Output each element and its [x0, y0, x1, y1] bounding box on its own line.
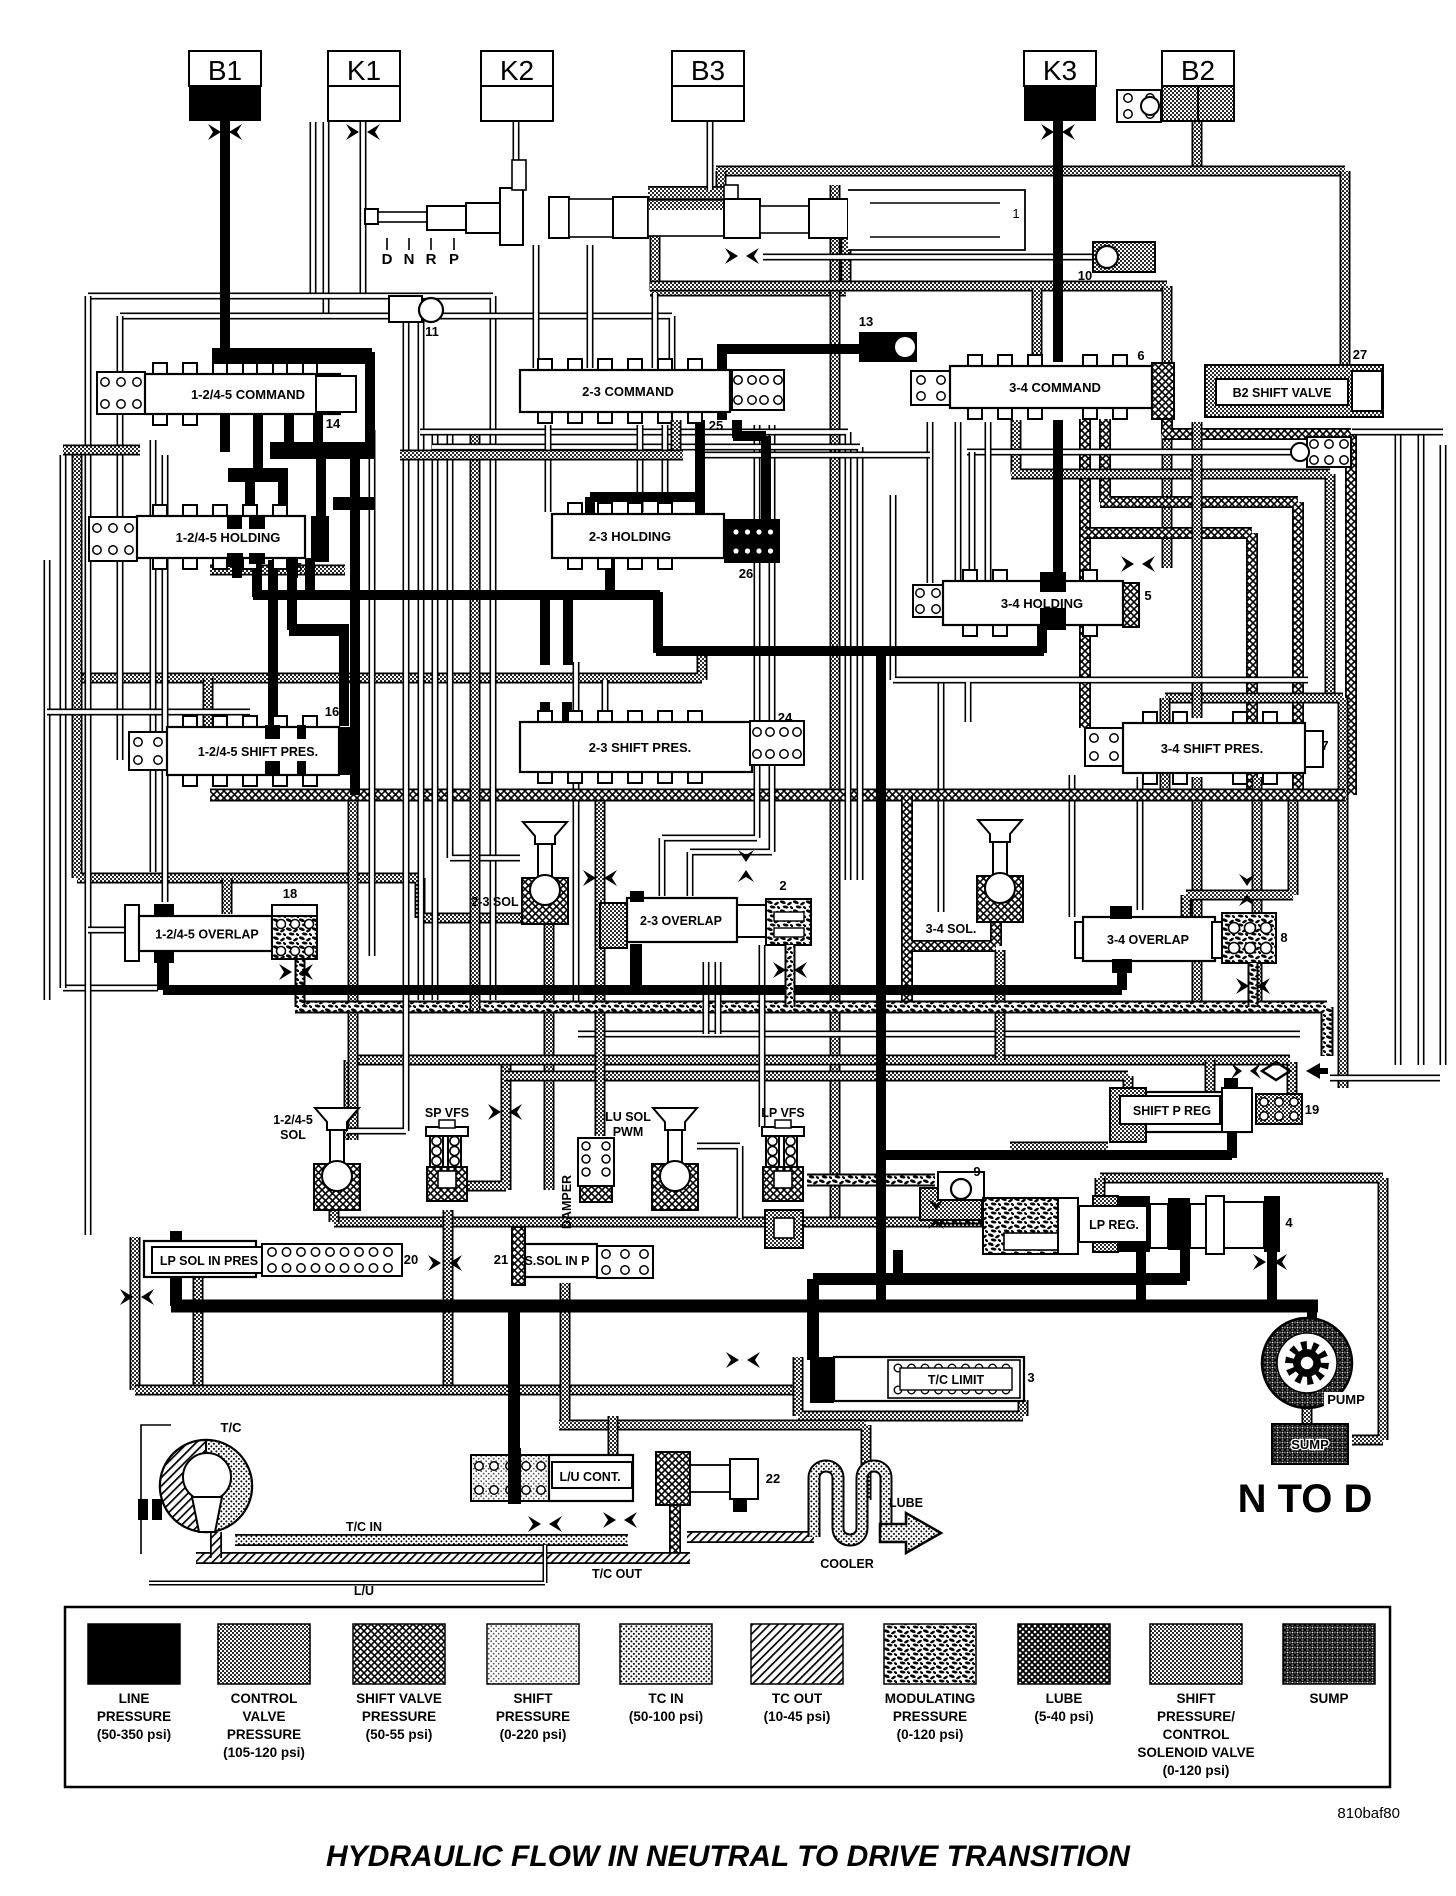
wire lp sol down — [170, 1268, 182, 1306]
svg-text:SHIFT VALVE: SHIFT VALVE — [356, 1691, 442, 1706]
svg-text:(0-220 psi): (0-220 psi) — [500, 1727, 567, 1742]
wire overlap2 drop — [630, 944, 642, 990]
wire bundle x372 — [369, 430, 376, 956]
wire bus drop b — [563, 598, 573, 665]
svg-text:19: 19 — [1305, 1102, 1319, 1117]
sump — [1272, 1424, 1348, 1464]
legend swatch LUBE — [1018, 1624, 1110, 1684]
wire gray drop to 3-4 command — [1032, 288, 1043, 368]
wire cmd1 black band y472 — [228, 468, 288, 482]
B2 side fitting — [1117, 90, 1161, 122]
svg-text:K3: K3 — [1043, 55, 1077, 86]
wire T/C OUT left riser — [210, 1532, 222, 1558]
wire B3 drop — [707, 121, 714, 190]
check valve item 9 — [920, 1188, 982, 1220]
restrictor below overlap3 — [1236, 978, 1249, 994]
svg-text:N: N — [404, 251, 415, 268]
wire item11 drop 2 — [418, 319, 425, 1000]
wire gray band y450 left — [63, 445, 140, 456]
svg-text:DAMPER: DAMPER — [560, 1175, 574, 1229]
wire to t/c limit — [807, 1279, 819, 1360]
wire 2-3 sp stub a — [540, 702, 550, 724]
svg-text:3-4 SHIFT PRES.: 3-4 SHIFT PRES. — [1161, 741, 1264, 756]
legend swatch TC IN — [620, 1624, 712, 1684]
svg-text:27: 27 — [1353, 347, 1367, 362]
valve 1-2/4-5 OVERLAP (18) — [125, 905, 139, 961]
svg-text:16: 16 — [325, 704, 339, 719]
svg-text:2-3 COMMAND: 2-3 COMMAND — [582, 384, 674, 399]
D N R P gate labels — [387, 238, 454, 250]
restrictor 20 — [428, 1255, 441, 1271]
svg-text:LP REG.: LP REG. — [1089, 1218, 1139, 1232]
wire left loop x77 to 2-3 sol — [77, 455, 525, 918]
wire 2-3 link c — [662, 425, 669, 512]
check ball item 11 — [389, 296, 422, 322]
wire left channel x120 — [117, 316, 124, 760]
flow arrows item 9 — [928, 1199, 944, 1210]
valve 2-3 SHIFT PRES (24) — [538, 711, 552, 724]
svg-text:HYDRAULIC FLOW IN NEUTRAL TO D: HYDRAULIC FLOW IN NEUTRAL TO DRIVE TRANS… — [326, 1840, 1131, 1873]
wire gray drop x600 to damper — [595, 795, 606, 1136]
wire manual to 2-3 cmd b — [587, 245, 594, 368]
wire channel into overlap3 top — [1137, 777, 1144, 910]
wire holding1 stub a — [232, 558, 242, 578]
wire lp reg left drop — [893, 1250, 903, 1279]
restrictor under manual valve — [725, 248, 738, 264]
wire vertical x448 — [443, 1210, 454, 1390]
wire shift valve bus y795 — [210, 789, 1345, 802]
restrictor near sp vfs — [488, 1104, 501, 1120]
svg-text:D: D — [382, 251, 393, 268]
wire T/C IN line — [235, 1534, 628, 1546]
legend swatch SHIFT VALVE — [353, 1624, 445, 1684]
svg-text:L/U CONT.: L/U CONT. — [559, 1470, 620, 1484]
wire y1060 left end down — [344, 1060, 355, 1140]
wire channel into bus start — [63, 985, 158, 992]
wire black drop x292 — [287, 560, 297, 630]
wire gray stub into overlap1 — [222, 878, 233, 914]
wire right channel b — [1418, 432, 1425, 1065]
wire manual to 2-3 cmd a — [533, 245, 540, 368]
wire into overlap1 — [88, 927, 140, 934]
valve LP SOL IN PRES (20) — [144, 1241, 256, 1277]
wire sp vfs feed — [468, 1062, 506, 1190]
wire to 3-4 holding — [1037, 622, 1047, 653]
svg-text:6: 6 — [1137, 348, 1144, 363]
fitting below B2 shift valve — [1307, 437, 1351, 467]
wire 3-4 sol drop — [995, 950, 1006, 1060]
wire loop bottom y1390 — [135, 1385, 798, 1396]
svg-text:2: 2 — [779, 878, 786, 893]
cooler coil — [814, 1466, 886, 1540]
wire rail left end — [329, 1205, 340, 1222]
restrictor left of t/c limit — [726, 1352, 739, 1368]
wire blob stub below overlap2 — [785, 945, 796, 1007]
svg-text:B1: B1 — [208, 55, 242, 86]
valve S.SOL IN P (21) — [512, 1227, 525, 1285]
svg-text:1-2/4-5 HOLDING: 1-2/4-5 HOLDING — [176, 530, 281, 545]
wire channel x972 down — [969, 452, 976, 583]
valve B2 SHIFT VALVE (27) — [1205, 365, 1383, 417]
svg-text:SOLENOID VALVE: SOLENOID VALVE — [1137, 1745, 1254, 1760]
wire left channel x153 — [150, 440, 157, 872]
lube arrow — [880, 1513, 941, 1553]
svg-text:3-4 COMMAND: 3-4 COMMAND — [1009, 380, 1101, 395]
valve 2-3 HOLDING (26) — [568, 503, 582, 516]
wire right top connector — [1352, 429, 1443, 436]
wire 2-3 link a — [545, 425, 552, 512]
wire item9 to lp reg blob — [940, 1196, 985, 1218]
wire bundle x435 — [432, 432, 439, 1000]
wire right vertical x1167 — [1162, 286, 1173, 568]
flow arrows above overlap3 — [1239, 874, 1255, 886]
wire left tall channel x88 — [85, 296, 92, 1235]
svg-text:T/C LIMIT: T/C LIMIT — [928, 1373, 985, 1387]
legend swatch MODULATING — [884, 1624, 976, 1684]
svg-text:SHIFT P REG: SHIFT P REG — [1133, 1104, 1211, 1118]
valve 3-4 OVERLAP (8) — [1075, 922, 1087, 958]
wire gray stub y1147 into shift p reg — [1010, 1142, 1108, 1153]
wire loop left x135 — [130, 1237, 141, 1390]
flow arrows above overlap2 — [738, 850, 754, 862]
wire shift band y570 short — [210, 565, 345, 576]
wire bus connector x658 — [653, 592, 663, 653]
svg-text:TC IN: TC IN — [648, 1691, 683, 1706]
wire B1 side channel 2 — [323, 122, 330, 316]
restrictor on x600 — [583, 870, 596, 886]
wire drop to l/u cont — [508, 1306, 520, 1462]
svg-text:CONTROL: CONTROL — [231, 1691, 298, 1706]
item 26 black accumulator — [724, 519, 780, 563]
wire gray loop y698 — [1165, 698, 1343, 1088]
restrictor below l/u cont a — [528, 1516, 541, 1532]
valve 1-2/4-5 SHIFT PRES (16) — [129, 732, 167, 770]
manual valve (item 1) — [365, 209, 378, 224]
svg-text:T/C OUT: T/C OUT — [592, 1567, 642, 1581]
wire 2-3 link b — [637, 425, 644, 512]
wire 3-4 link a — [927, 422, 934, 583]
svg-text:K2: K2 — [500, 55, 534, 86]
wire bus y595 — [253, 590, 660, 600]
wire cross y455 — [700, 452, 930, 459]
wire bus y1279 — [813, 1273, 1187, 1285]
wire lp sol stub — [170, 1231, 182, 1244]
solenoid 2-3 SOL — [523, 822, 567, 844]
wire vertical x198 — [193, 1277, 204, 1390]
svg-text:LUBE: LUBE — [889, 1496, 923, 1510]
clutch K2 box — [481, 51, 553, 86]
wire 2-3 sp stub b — [562, 702, 572, 724]
wire 2-3 holding top link — [590, 497, 700, 524]
wire overlap2 stub down a — [703, 962, 710, 1034]
wire long channel y296 — [88, 296, 493, 1000]
wire blob stub below overlap1 — [295, 959, 306, 1007]
wire black drop x344 — [339, 632, 349, 726]
wire black drop x273 to shift pres — [268, 560, 278, 726]
wire T/C OUT line — [196, 1552, 690, 1564]
wire lp reg right drop — [1180, 1248, 1190, 1281]
wire into l/u cont top — [608, 1416, 619, 1458]
wire B1 line drop — [220, 121, 230, 352]
svg-text:LP SOL IN PRES: LP SOL IN PRES — [160, 1254, 258, 1268]
wire lp reg mid drop — [1136, 1248, 1146, 1306]
svg-text:B2: B2 — [1181, 55, 1215, 86]
svg-text:PRESSURE/: PRESSURE/ — [1157, 1709, 1235, 1724]
accumulator item 10 — [1093, 242, 1155, 272]
wire modulating bus y1007 — [295, 1007, 1327, 1056]
wire K1 drop — [360, 121, 367, 296]
valve SHIFT P REG (19) — [1110, 1088, 1146, 1142]
legend swatch TC OUT — [751, 1624, 843, 1684]
svg-text:LINE: LINE — [119, 1691, 150, 1706]
wire pump to sump — [1302, 1402, 1313, 1424]
wire black band above command 1 — [212, 348, 372, 364]
svg-text:22: 22 — [766, 1471, 780, 1486]
svg-text:2-3 SOL: 2-3 SOL — [471, 895, 519, 909]
svg-text:7: 7 — [1321, 738, 1328, 753]
wire left channel x165 — [162, 455, 169, 902]
wire cmd1 right riser — [365, 352, 375, 445]
svg-text:1-2/4-5 SHIFT PRES.: 1-2/4-5 SHIFT PRES. — [198, 745, 318, 759]
svg-text:2-3 SHIFT PRES.: 2-3 SHIFT PRES. — [589, 740, 692, 755]
wire hatch outer loop right — [1162, 419, 1351, 795]
wire top control band y171 — [716, 166, 1345, 177]
restrictor below overlap2 — [773, 962, 786, 978]
svg-text:1-2/4-5: 1-2/4-5 — [273, 1113, 313, 1127]
wire hatch x1085 — [1079, 419, 1091, 728]
svg-text:10: 10 — [1078, 268, 1092, 283]
wire far left channel x47 — [44, 560, 51, 1000]
svg-text:SOL: SOL — [280, 1128, 306, 1142]
svg-text:18: 18 — [283, 886, 297, 901]
restrictor under K3 — [1041, 124, 1054, 140]
wire lp reg end drop — [1267, 1248, 1277, 1306]
valve 3-4 SHIFT PRES (7) — [1085, 728, 1123, 766]
wire drop to 19 box — [1287, 1062, 1298, 1096]
wire bundle x450 to 2-3 sol — [450, 432, 520, 858]
svg-text:MODULATING: MODULATING — [885, 1691, 976, 1706]
svg-text:(0-120 psi): (0-120 psi) — [897, 1727, 964, 1742]
junction item 13 — [859, 332, 917, 362]
wire gray bus y1060 — [349, 1055, 1290, 1066]
wire black band y630 — [289, 624, 349, 636]
wire main bottom bus y1306 — [171, 1300, 1318, 1313]
wire gray stub below 2-3 cmd — [671, 420, 682, 455]
wire central bundle a to overlap2 — [662, 425, 757, 896]
wire vertical x1257 — [1252, 777, 1263, 1013]
wire right channel c — [1440, 445, 1447, 1065]
svg-text:PRESSURE: PRESSURE — [496, 1709, 570, 1724]
wire B2 drop to top band — [1192, 121, 1203, 171]
svg-text:4: 4 — [1285, 1215, 1293, 1230]
wire gray band y455 — [400, 450, 683, 461]
wire channel bus y1034 — [578, 1031, 1300, 1038]
svg-text:SHIFT: SHIFT — [1177, 1691, 1217, 1706]
svg-text:VALVE: VALVE — [242, 1709, 285, 1724]
svg-text:(0-120 psi): (0-120 psi) — [1163, 1763, 1230, 1778]
restrictor shift p reg a — [1231, 1063, 1242, 1079]
wire channel y452 to fitting — [967, 449, 1297, 456]
wire long channel y316 — [120, 316, 672, 372]
svg-text:K1: K1 — [347, 55, 381, 86]
svg-text:1-2/4-5 COMMAND: 1-2/4-5 COMMAND — [191, 387, 305, 402]
restrictor left of lp sol — [120, 1289, 133, 1305]
legend swatch LINE — [88, 1624, 180, 1684]
wire loop to 2-3 cmd — [652, 293, 659, 368]
wire t/c out riser hatch — [669, 1500, 681, 1558]
svg-text:L/U: L/U — [354, 1584, 374, 1598]
wire 2-3 sp feed — [602, 680, 609, 722]
restrictor below l/u cont b — [603, 1512, 616, 1528]
wire K2 drop — [513, 121, 520, 190]
svg-text:1: 1 — [1012, 206, 1019, 221]
clutch K3 box — [1024, 51, 1096, 86]
wire channel into overlap3 left — [1069, 775, 1076, 917]
svg-text:26: 26 — [739, 566, 753, 581]
wire vertical x1197 — [1192, 422, 1203, 1013]
svg-text:(50-350 psi): (50-350 psi) — [97, 1727, 171, 1742]
svg-text:3-4 SOL.: 3-4 SOL. — [926, 922, 977, 936]
legend swatch CONTROL — [218, 1624, 310, 1684]
wire L/U line — [149, 1545, 545, 1583]
wire black band y503 — [333, 497, 375, 510]
wire drop to shift p reg — [1205, 1060, 1216, 1092]
valve 3-4 HOLDING (5) — [913, 585, 943, 617]
clutch B3 box — [672, 51, 744, 86]
svg-text:COOLER: COOLER — [820, 1557, 873, 1571]
wire cmd1 drop e — [316, 448, 326, 516]
wire channel x941 down — [938, 680, 945, 912]
restrictor above 3-4 holding — [1121, 556, 1134, 572]
solenoid LU SOL PWM — [653, 1108, 697, 1130]
valve L/U CONT (22) — [471, 1455, 549, 1501]
wire cross y680 — [893, 495, 1308, 680]
wire cmd1 black band y450 — [270, 442, 374, 459]
wire central bundle d — [432, 447, 860, 880]
wire lp vfs to item9 — [807, 1174, 935, 1187]
svg-text:R: R — [426, 251, 437, 268]
wire lube line to cooler — [687, 1531, 814, 1543]
svg-text:PRESSURE: PRESSURE — [97, 1709, 171, 1724]
wire drop to B2 shift valve — [1340, 171, 1351, 368]
pump — [1262, 1318, 1352, 1408]
wire central bundle b to overlap2 — [690, 425, 772, 896]
wire y678 drop into shift pres — [203, 678, 214, 729]
svg-text:CONTROL: CONTROL — [1163, 1727, 1230, 1742]
arrow into shift p reg — [1306, 1063, 1328, 1079]
valve 1-2/4-5 COMMAND (14) — [97, 372, 145, 414]
wire to shift p reg — [881, 1128, 1232, 1158]
wire loop to cooler riser — [559, 1283, 866, 1500]
clutch B1 box — [189, 51, 261, 86]
wire gray bus y1076 — [505, 1076, 1128, 1090]
svg-text:21: 21 — [494, 1252, 508, 1267]
svg-text:2-3 HOLDING: 2-3 HOLDING — [589, 529, 671, 544]
svg-text:9: 9 — [973, 1164, 980, 1179]
svg-text:15: 15 — [288, 560, 302, 575]
torque converter T/C — [160, 1440, 252, 1532]
svg-text:LP VFS: LP VFS — [761, 1106, 805, 1120]
wire lp reg gray drop — [1095, 1178, 1106, 1200]
manual valve bore outline right — [848, 190, 1025, 250]
restrictor below lp reg — [1253, 1254, 1266, 1270]
svg-text:(50-55 psi): (50-55 psi) — [366, 1727, 433, 1742]
valve 2-3 COMMAND (25) — [538, 359, 552, 372]
wire bus to pump — [1307, 1306, 1317, 1324]
wire 2-3 cmd to item26 — [733, 420, 766, 519]
legend swatch SHIFT — [1150, 1624, 1242, 1684]
wire 2-3 sol drop x549 — [544, 922, 555, 1190]
svg-text:SHIFT: SHIFT — [514, 1691, 554, 1706]
svg-text:T/C IN: T/C IN — [346, 1520, 382, 1534]
wire 3-4 link c — [985, 422, 992, 583]
wire 3-4 sol feed hatch — [903, 795, 996, 1002]
svg-text:SUMP: SUMP — [1309, 1691, 1348, 1706]
restrictor below overlap1 — [279, 964, 292, 980]
wire 3-4 link b — [955, 422, 962, 583]
wire solenoid rail y1222 — [334, 1217, 986, 1228]
solenoid 1-2/4-5 SOL — [315, 1108, 359, 1130]
svg-text:LU SOL: LU SOL — [605, 1110, 651, 1124]
svg-text:810baf80: 810baf80 — [1337, 1805, 1400, 1822]
wire channel x762 lower — [759, 945, 766, 1127]
wire gray bundle x475 — [470, 432, 481, 1010]
svg-text:B2 SHIFT VALVE: B2 SHIFT VALVE — [1233, 386, 1332, 400]
wire K3 drop — [1053, 121, 1063, 362]
wire into manual valve bore — [716, 171, 727, 205]
svg-text:24: 24 — [778, 710, 793, 725]
valve 2-3 OVERLAP (2) — [600, 903, 627, 948]
wire blob stub below overlap3 — [1248, 963, 1259, 1007]
wire bus drop a — [540, 598, 550, 665]
wire gray x1165 drop — [1160, 698, 1171, 795]
svg-text:(5-40 psi): (5-40 psi) — [1034, 1709, 1093, 1724]
clutch K1 box — [328, 51, 400, 86]
wire cmd1 drop g — [245, 480, 255, 518]
solenoid LP VFS — [762, 1127, 804, 1136]
svg-text:P: P — [449, 251, 459, 268]
svg-text:N TO D: N TO D — [1238, 1477, 1373, 1521]
svg-text:SUMP: SUMP — [1291, 1437, 1329, 1452]
wire gray loop x1330 — [1011, 420, 1330, 698]
wire right channel a — [1395, 432, 1402, 1065]
wire gray band y678 — [77, 656, 702, 680]
wire y680 to 3-4 shift pres — [965, 682, 972, 722]
svg-text:LUBE: LUBE — [1046, 1691, 1083, 1706]
restrictor under B1 — [208, 124, 221, 140]
solenoid 3-4 SOL — [978, 820, 1022, 842]
valve LP REG (4) — [983, 1198, 1075, 1254]
svg-text:20: 20 — [404, 1252, 418, 1267]
svg-text:25: 25 — [709, 418, 723, 433]
wire cmd1 drop b — [253, 412, 263, 478]
svg-text:PUMP: PUMP — [1327, 1392, 1365, 1407]
wire item11 drop to sol — [347, 319, 406, 1131]
restrictor under K1 — [346, 124, 359, 140]
wire channel x576 — [573, 662, 580, 1007]
svg-text:SP VFS: SP VFS — [425, 1106, 469, 1120]
legend box — [65, 1607, 1390, 1787]
wire 2-3 holding drop — [605, 558, 615, 597]
svg-text:PWM: PWM — [613, 1125, 644, 1139]
wire cmd1 drop h — [278, 480, 288, 518]
wire black bus y990 — [163, 985, 1122, 995]
svg-text:13: 13 — [859, 314, 873, 329]
wire hatch loop x1105 — [1100, 419, 1298, 795]
svg-text:3-4 OVERLAP: 3-4 OVERLAP — [1107, 933, 1189, 947]
valve 3-4 COMMAND (6) — [911, 371, 951, 405]
wire cmd1 drop c — [284, 412, 294, 452]
